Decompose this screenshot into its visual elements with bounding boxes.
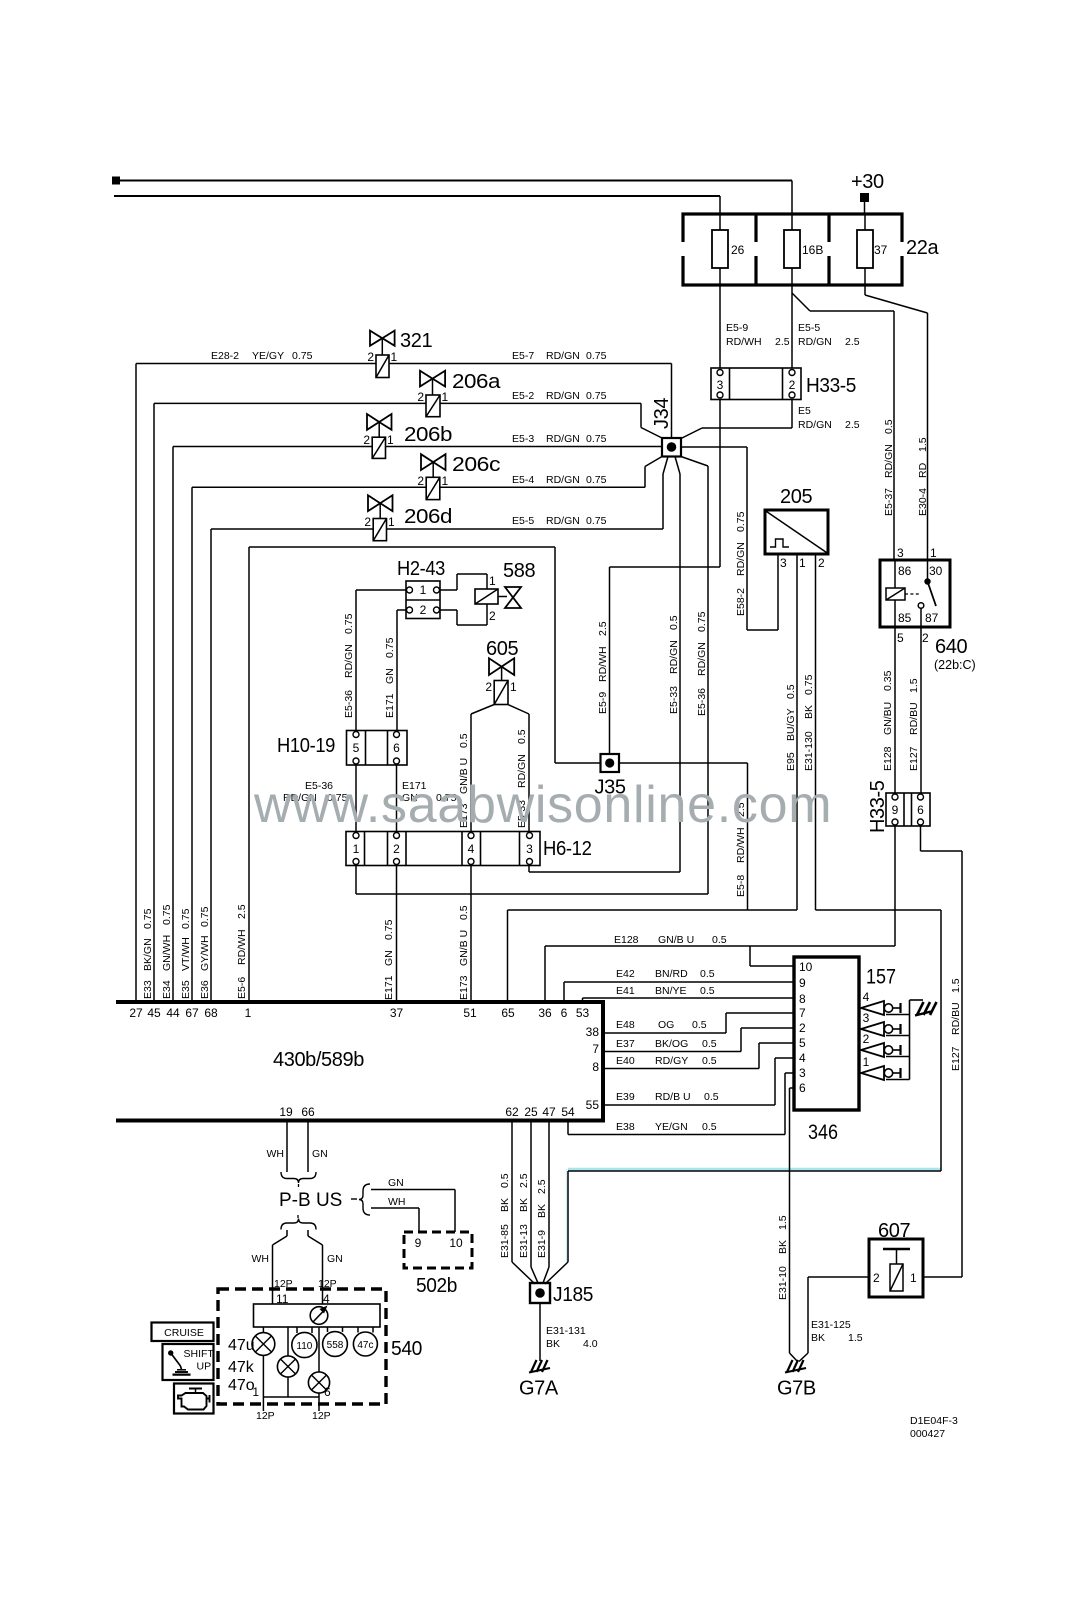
wire E128 relay 85 to H33-5 pin9 [882,627,895,793]
svg-text:WH: WH [388,1196,406,1208]
connector H33-5 lower [867,780,930,833]
instrument cluster 540 dashed box [218,1289,422,1404]
svg-text:2: 2 [799,1021,806,1035]
connector H10-19 [277,731,407,766]
wire E127 relay 87 to H33-5 pin6 [908,627,921,793]
wire fuse16B to H33-5 pin2 E5-5 [792,285,860,368]
svg-text:67: 67 [185,1006,199,1020]
svg-text:157: 157 [866,966,896,989]
valve 206a [417,371,501,417]
valve 206c [417,454,500,500]
wire E31-9 430b pin47 to J185 [536,1123,549,1284]
svg-text:206d: 206d [404,506,452,528]
svg-text:640: 640 [935,636,967,658]
wire H6-12 pin2 to 430b pin37 E171 [383,866,397,1003]
svg-text:16B: 16B [802,243,823,257]
svg-text:3: 3 [717,378,724,392]
cyan highlight E31-130 route [567,1169,942,1262]
valve 206d [364,495,452,540]
svg-text:86: 86 [898,564,912,578]
svg-text:E48OG0.5: E48OG0.5 [616,1019,707,1031]
svg-text:1: 1 [510,680,517,694]
document number [910,1415,958,1440]
lamp 47o [228,1327,330,1394]
540 lamp bar [254,1304,381,1327]
svg-text:54: 54 [561,1105,575,1119]
svg-text:1: 1 [442,390,449,404]
svg-text:2: 2 [485,680,492,694]
svg-text:5: 5 [799,1036,806,1050]
svg-text:RD/GN2.5: RD/GN2.5 [798,336,860,348]
svg-text:22a: 22a [906,237,939,259]
svg-text:www.saabwisonline.com: www.saabwisonline.com [253,776,832,834]
svg-text:45: 45 [147,1006,161,1020]
wire E5 H33-5 pin2 to J34 [681,400,860,439]
wire E35 pin67 to 206c [192,487,426,1002]
svg-text:3: 3 [526,842,533,856]
svg-text:J185: J185 [553,1284,593,1306]
svg-text:E5-2RD/GN0.75: E5-2RD/GN0.75 [512,390,607,402]
wire GN to 502b pin10 [371,1177,455,1232]
svg-text:12P: 12P [312,1410,331,1422]
svg-text:346: 346 [808,1120,838,1144]
svg-text:588: 588 [503,560,535,582]
svg-text:7: 7 [592,1042,599,1056]
fuse 16B [784,214,823,285]
svg-text:51: 51 [463,1006,477,1020]
svg-text:321: 321 [400,330,432,352]
connector H2-43 [397,558,445,619]
svg-text:2: 2 [417,390,424,404]
wire E31-10 346 pin6 to G7B [777,1088,798,1362]
svg-text:6: 6 [561,1006,568,1020]
diode 3 of 157 [861,1011,910,1036]
wire E5-4 206c to J34 [440,457,662,488]
connector 502b [404,1232,472,1297]
svg-text:E128GN/BU0.35: E128GN/BU0.35 [882,670,894,771]
svg-text:6: 6 [799,1081,806,1095]
lamp 558 [323,1327,348,1356]
diode 1 of 157 [861,1055,910,1080]
svg-text:36: 36 [538,1006,552,1020]
svg-text:605: 605 [486,638,518,660]
ground G7B [777,1360,816,1400]
svg-text:E28-2YE/GY0.75: E28-2YE/GY0.75 [211,350,313,362]
svg-text:85: 85 [898,611,912,625]
svg-text:SHIFT: SHIFT [184,1348,215,1360]
svg-text:1: 1 [930,546,937,560]
SHIFT UP indicator box [163,1344,215,1380]
svg-text:9: 9 [892,803,899,817]
540 bottom collector to pins 1 and 6 [252,1355,331,1422]
430b right pin numbers [586,1025,600,1112]
P-BUS brace upper [281,1172,316,1183]
svg-text:E5-9RD/WH2.5: E5-9RD/WH2.5 [597,621,609,714]
svg-text:47c: 47c [357,1340,373,1351]
svg-text:65: 65 [501,1006,515,1020]
svg-text:205: 205 [780,486,812,508]
svg-text:H10-19: H10-19 [277,735,335,757]
wire fuse16B branch E5-37 to relay 86 [792,293,895,560]
157 ground bus [910,1000,924,1080]
svg-text:E37BK/OG0.5: E37BK/OG0.5 [616,1038,717,1050]
svg-text:8: 8 [799,992,806,1006]
svg-text:E173GN/B U0.5: E173GN/B U0.5 [458,905,470,1000]
svg-text:E38YE/GN0.5: E38YE/GN0.5 [616,1121,717,1133]
wire E31-130 205 pin2 to J185 [545,554,941,1284]
svg-text:E33BK/GN0.75: E33BK/GN0.75 [142,908,154,999]
+30 supply [851,171,884,214]
splice J34 [651,398,681,457]
wire E5-9 H33-5 pin3 down to J35 [597,400,720,755]
svg-text:1: 1 [420,583,427,597]
svg-text:E39RD/B U0.5: E39RD/B U0.5 [616,1091,719,1103]
svg-text:E36GY/WH0.75: E36GY/WH0.75 [199,906,211,999]
svg-text:1: 1 [489,574,496,588]
svg-text:WH: WH [252,1253,270,1265]
wire E5-7 321 to J34 [389,350,672,438]
wire H10-19 pin6 to H6-12 pin2 [397,765,457,832]
P-BUS brace lower [281,1219,316,1230]
svg-text:E5-7RD/GN0.75: E5-7RD/GN0.75 [512,350,607,362]
wire E42 430b pin6 to 346 pin9 [564,968,794,1002]
wire E5-36 J34 to H6-12 pin1 [356,457,708,895]
fuse 26 [712,214,745,285]
svg-text:E171GN0.75: E171GN0.75 [384,637,396,718]
svg-text:87: 87 [925,611,939,625]
svg-text:1: 1 [863,1055,870,1069]
svg-text:6: 6 [324,1385,331,1399]
control module 430b/589b [116,1000,603,1123]
wire WH to 502b pin9 [371,1196,419,1232]
svg-text:27: 27 [129,1006,143,1020]
svg-text:1: 1 [388,515,395,529]
diode module 346 [794,957,896,1144]
wire E5-33 J34 to H6-12 pin3 [529,457,680,873]
svg-text:E58-2RD/GN0.75: E58-2RD/GN0.75 [735,511,747,616]
P-BUS brace right for 502b [351,1184,370,1215]
relay 640 [880,546,976,672]
wire E127 H33-5 pin6 to 607 pin1 [921,826,963,1277]
svg-text:47: 47 [542,1105,556,1119]
splice J185 [530,1283,593,1306]
svg-text:E5-3RD/GN0.75: E5-3RD/GN0.75 [512,433,607,445]
valve 206b [363,414,452,458]
svg-text:47o: 47o [228,1377,255,1394]
engine symbol box [174,1384,214,1414]
svg-text:4: 4 [468,842,475,856]
svg-text:2: 2 [489,609,496,623]
svg-text:206c: 206c [452,454,500,476]
svg-text:206a: 206a [452,371,501,393]
relay 640 switch [918,560,936,627]
svg-text:E95BU/GY0.5: E95BU/GY0.5 [785,684,797,771]
svg-text:3: 3 [780,556,787,570]
svg-text:37: 37 [874,243,888,257]
svg-text:E171GN0.75: E171GN0.75 [383,919,395,1000]
svg-text:H2-43: H2-43 [397,558,445,580]
wire 605 pin1 to H6-12 pin3 [508,705,529,832]
svg-text:GN: GN [388,1177,404,1189]
wire E5-6 J35 to 430b pin1 [236,547,601,1002]
svg-text:3: 3 [897,546,904,560]
svg-text:E35VT/WH0.75: E35VT/WH0.75 [180,908,192,999]
wire H6-12 pin4 to 430b pin51 E173 [458,866,471,1003]
wire E5-2 206a to J34 [440,390,662,438]
svg-text:66: 66 [301,1105,315,1119]
svg-text:CRUISE: CRUISE [164,1327,204,1339]
svg-text:1: 1 [910,1271,917,1285]
svg-text:10: 10 [449,1236,463,1250]
wire H2-43 pin1 to H10-19 pin5 [343,590,406,731]
svg-text:E5-5: E5-5 [798,322,820,334]
svg-text:38: 38 [586,1025,600,1039]
wire E28-2 pin27 to 321 [136,350,376,1002]
left wire labels E33 E34 E35 E36 [142,904,211,999]
svg-text:2: 2 [364,515,371,529]
svg-text:5: 5 [897,631,904,645]
svg-text:1: 1 [387,433,394,447]
svg-text:3: 3 [863,1011,870,1025]
wire E128 H33-5 pin9 to 430b pin36 and 346 pin10 [545,826,895,1002]
svg-text:2: 2 [367,350,374,364]
splice J35 [595,754,626,799]
svg-text:12P: 12P [256,1410,275,1422]
lamp 110 [292,1327,317,1358]
wire H2-43 pin2 to H10-19 pin6 [384,610,406,731]
svg-text:1: 1 [799,556,806,570]
svg-text:68: 68 [204,1006,218,1020]
svg-text:1: 1 [442,474,449,488]
valve 588 [498,587,521,608]
wire E5-8 J35 to 430b pin65 [619,763,748,910]
wire 605 pin2 to H6-12 pin4 [458,705,494,832]
svg-text:2: 2 [873,1271,880,1285]
wire E40 430b pin8 to 346 pin5 [603,1043,794,1069]
wire E34 pin44 to 206b [173,447,372,1003]
svg-text:6: 6 [393,741,400,755]
wire H10-19 pin5 to H6-12 pin1 [283,765,356,832]
svg-text:540: 540 [391,1338,422,1360]
svg-text:GN: GN [327,1253,343,1265]
wire E38 430b pin54 to 346 pin3 [568,1073,794,1135]
svg-text:10: 10 [799,960,813,974]
wire fuse37 E30-4 to relay 30 [865,285,929,560]
svg-text:E31-9BK2.5: E31-9BK2.5 [536,1179,548,1258]
svg-text:5: 5 [353,741,360,755]
svg-text:RD/GN2.5: RD/GN2.5 [798,419,860,431]
fuse box 22a [681,214,939,285]
wire E31-131 J185 to G7A [540,1303,598,1361]
fuse 37 [857,214,888,285]
connector H6-12 [346,832,592,866]
svg-text:P-B US: P-B US [279,1190,342,1211]
svg-text:6: 6 [917,803,924,817]
wire E31-125 607 pin2 to G7B [799,1277,869,1362]
svg-text:E5-36RD/GN0.75: E5-36RD/GN0.75 [343,613,355,718]
svg-text:2: 2 [789,378,796,392]
valve 605 [485,638,518,705]
svg-text:1: 1 [252,1385,259,1399]
svg-text:H6-12: H6-12 [543,838,592,860]
svg-text:+30: +30 [851,171,884,193]
svg-text:62: 62 [505,1105,519,1119]
wire E95 205 pin1 to 430b pin65 [508,554,798,1002]
svg-text:55: 55 [586,1098,600,1112]
svg-text:E5-4RD/GN0.75: E5-4RD/GN0.75 [512,474,607,486]
wire E37 430b pin7 to 346 pin2 [603,1028,794,1052]
svg-text:2: 2 [420,603,427,617]
svg-text:E31-125: E31-125 [811,1319,851,1331]
svg-text:430b/589b: 430b/589b [273,1049,364,1071]
svg-text:44: 44 [166,1006,180,1020]
svg-text:D1E04F-3: D1E04F-3 [910,1415,958,1427]
svg-text:E5-33RD/GN0.5: E5-33RD/GN0.5 [668,615,680,714]
svg-text:E5-5RD/GN0.75: E5-5RD/GN0.75 [512,515,607,527]
wire WH to 540 pin11 [252,1230,293,1306]
diode 2 of 157 [861,1032,910,1057]
svg-text:3: 3 [799,1066,806,1080]
switch 607 [869,1220,923,1297]
svg-text:2: 2 [863,1032,870,1046]
wire E33 pin45 to 206a [154,403,426,1002]
svg-text:30: 30 [929,564,943,578]
svg-text:2: 2 [818,556,825,570]
svg-text:8: 8 [592,1060,599,1074]
lamp 47c [353,1327,377,1356]
svg-text:RD/WH2.5: RD/WH2.5 [726,336,790,348]
svg-text:E5-36RD/GN0.75: E5-36RD/GN0.75 [696,611,708,716]
wire WH 430b pin19 [267,1123,288,1173]
svg-text:E40RD/GY0.5: E40RD/GY0.5 [616,1055,717,1067]
CRUISE indicator box [152,1323,214,1342]
svg-text:E5-37RD/GN0.5: E5-37RD/GN0.5 [883,419,895,516]
P-BUS node [279,1184,342,1221]
svg-text:4: 4 [863,990,870,1004]
svg-text:GN: GN [312,1148,328,1160]
wire E41 430b pin53 to 346 pin8 [583,985,795,1002]
430b bottom pin numbers [279,1105,575,1119]
svg-text:7: 7 [799,1006,806,1020]
svg-text:(22b:C): (22b:C) [934,658,976,672]
relay coil 588 [440,560,535,625]
svg-text:G7B: G7B [777,1378,816,1400]
svg-text:2: 2 [922,631,929,645]
svg-text:53: 53 [576,1006,590,1020]
svg-text:37: 37 [390,1006,404,1020]
wire E31-85 430b pin62 to J185 [499,1123,535,1285]
svg-text:558: 558 [327,1340,344,1351]
wire E36 pin68 to 206d [211,529,373,1002]
svg-text:1: 1 [353,842,360,856]
svg-text:UP: UP [197,1361,212,1373]
svg-text:1: 1 [391,350,398,364]
svg-text:206b: 206b [404,424,452,446]
wire fuse26 to H33-5 pin3 E5-9 [720,285,790,368]
wire E48 430b pin38 to 346 pin7 [603,1013,794,1033]
svg-text:E30-4RD1.5: E30-4RD1.5 [917,437,929,516]
svg-text:E127RD/BU1.5: E127RD/BU1.5 [950,978,962,1071]
svg-text:E127RD/BU1.5: E127RD/BU1.5 [908,678,920,771]
svg-text:47u: 47u [228,1337,255,1354]
wire GN 430b pin66 [308,1123,328,1173]
svg-text:47k: 47k [228,1359,255,1376]
wire E58-2 J34 to 205 pin3 [681,447,778,630]
lamp 47k [228,1327,299,1377]
svg-text:1: 1 [245,1006,252,1020]
terminal square on feed 1 [112,177,120,185]
lamp 47u [228,1327,275,1355]
ground G7A [519,1360,559,1400]
svg-text:J34: J34 [651,398,673,429]
svg-text:4: 4 [799,1051,806,1065]
wire E31-13 430b pin25 to J185 [518,1123,538,1284]
svg-text:2: 2 [417,474,424,488]
svg-text:E34GN/WH0.75: E34GN/WH0.75 [161,904,173,999]
svg-text:G7A: G7A [519,1378,559,1400]
svg-text:000427: 000427 [910,1428,945,1440]
svg-text:110: 110 [296,1341,312,1352]
svg-text:E31-131: E31-131 [546,1325,586,1337]
svg-text:502b: 502b [416,1275,457,1297]
svg-text:2: 2 [393,842,400,856]
valve 321 [367,330,432,378]
svg-text:25: 25 [524,1105,538,1119]
svg-text:9: 9 [799,976,806,990]
svg-text:E42BN/RD0.5: E42BN/RD0.5 [616,968,715,980]
svg-text:WH: WH [267,1148,285,1160]
speed sensor 205 [765,486,828,570]
430b top pin numbers [129,1006,589,1020]
wire top feed 1 [116,181,792,215]
relay 640 coil [886,560,920,627]
wire E5-5 206d to J34 [387,457,669,530]
connector H33-5 top [711,368,856,400]
wire top feed 2 [114,196,720,214]
svg-text:26: 26 [731,243,745,257]
diode 4 of 157 [861,990,910,1015]
svg-text:2: 2 [363,433,370,447]
svg-text:E5: E5 [798,405,811,417]
157 chassis ground symbol [915,1002,937,1016]
svg-text:9: 9 [415,1236,422,1250]
svg-text:H33-5: H33-5 [806,375,856,397]
svg-text:E5-9: E5-9 [726,322,748,334]
svg-text:E41BN/YE0.5: E41BN/YE0.5 [616,985,715,997]
svg-text:E5-6RD/WH2.5: E5-6RD/WH2.5 [236,904,248,999]
wire GN to 540 pin4 [308,1230,343,1306]
svg-text:19: 19 [279,1105,293,1119]
wire E39 430b pin55 to 346 pin4 [603,1058,794,1105]
wire E5-3 206b to J34 [386,433,663,447]
